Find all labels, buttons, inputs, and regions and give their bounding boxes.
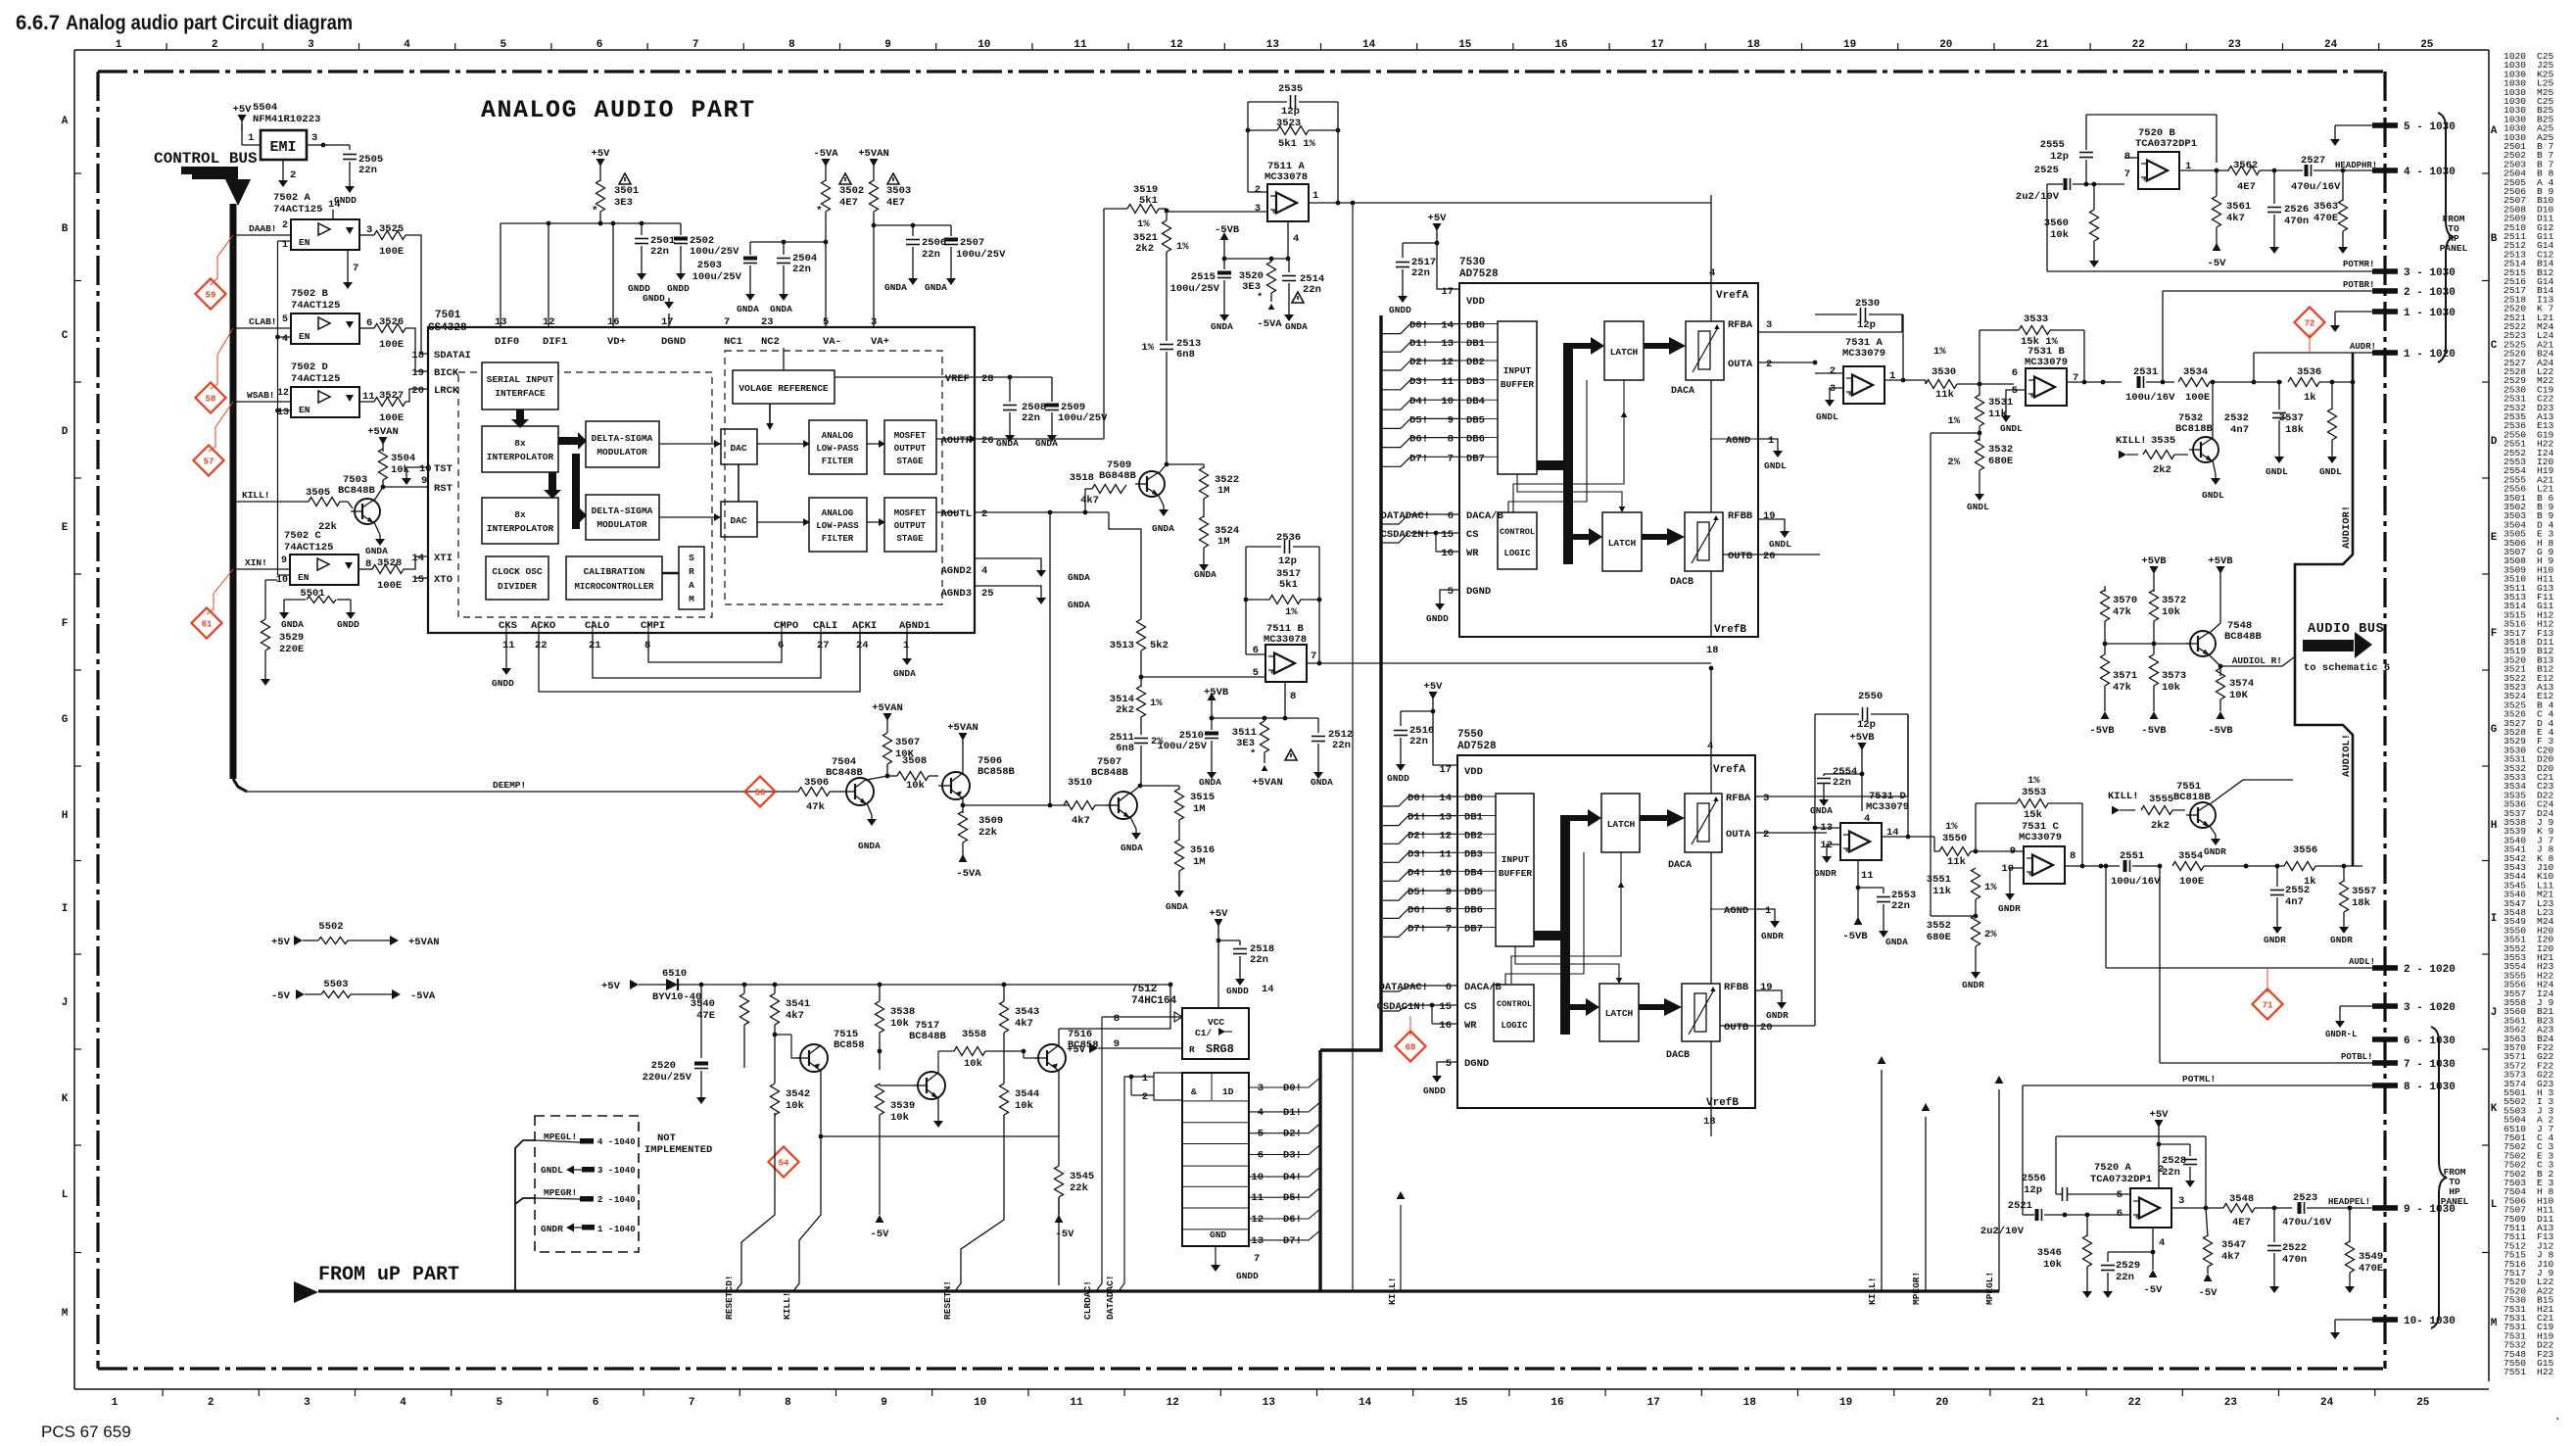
svg-text:BC858: BC858 (1068, 1039, 1099, 1051)
bottom loop CKS ground (505, 633, 507, 664)
svg-text:25: 25 (981, 588, 994, 600)
svg-text:24: 24 (2324, 39, 2338, 51)
svg-text:+5V: +5V (2150, 1109, 2170, 1121)
svg-text:8: 8 (785, 1397, 791, 1409)
block volage reference (733, 370, 835, 404)
svg-text:7502 C: 7502 C (284, 530, 322, 542)
capacitor 2554 (1824, 773, 1862, 775)
svg-text:LOGIC: LOGIC (1503, 549, 1531, 558)
net tag diamond 56 (744, 776, 775, 806)
svg-text:GNDD: GNDD (337, 619, 359, 630)
svg-text:17: 17 (661, 316, 674, 328)
svg-text:19: 19 (1839, 1397, 1852, 1409)
svg-text:DB3: DB3 (1466, 376, 1485, 388)
svg-text:BC848B: BC848B (338, 485, 376, 497)
svg-text:SERIAL INPUT: SERIAL INPUT (487, 374, 554, 385)
svg-text:7: 7 (2124, 169, 2130, 180)
svg-text:11: 11 (1073, 39, 1087, 51)
svg-text:GNDD: GNDD (492, 678, 514, 689)
7550 control logic wires (1505, 852, 1584, 985)
block serial input interface (482, 362, 558, 410)
stub 10-1030 (2372, 1317, 2398, 1323)
svg-text:GNDD: GNDD (1387, 773, 1409, 784)
svg-text:3515: 3515 (1190, 792, 1215, 803)
svg-text:RFBB: RFBB (1728, 510, 1753, 522)
svg-text:3525: 3525 (379, 223, 404, 235)
warning triangle near 3520 (1292, 292, 1304, 303)
svg-text:GNDL: GNDL (1764, 460, 1787, 471)
svg-text:7550: 7550 (1457, 729, 1483, 741)
svg-text:+: + (1848, 391, 1853, 400)
svg-text:3552: 3552 (1927, 920, 1951, 932)
svg-text:3: 3 (1258, 1083, 1264, 1094)
svg-text:EMI: EMI (269, 139, 296, 156)
svg-text:4: 4 (404, 39, 410, 51)
svg-text:22k: 22k (1070, 1182, 1088, 1194)
svg-text:MC33079: MC33079 (1866, 801, 1909, 813)
ground under 7504 (867, 803, 872, 815)
svg-text:9: 9 (1448, 414, 1454, 426)
7520B output to 3562 (2179, 169, 2229, 171)
svg-text:4: 4 (282, 334, 288, 345)
svg-text:+: + (1272, 209, 1277, 217)
svg-text:GNDD: GNDD (1423, 1085, 1446, 1096)
stub 8-1030 POTML (2372, 1083, 2398, 1088)
svg-text:GNDR: GNDR (2264, 935, 2286, 945)
block clock osc divider (486, 556, 549, 600)
svg-text:2: 2 (1763, 829, 1769, 841)
svg-text:2k2: 2k2 (2153, 464, 2171, 476)
svg-text:3539: 3539 (890, 1100, 915, 1112)
SRG8 data block (1182, 1073, 1249, 1246)
riser MPEGL! right (1998, 1089, 2000, 1291)
transistor 7548 (2190, 631, 2216, 656)
svg-text:12p: 12p (1281, 106, 1300, 118)
ground GNDD under 2505 (349, 181, 351, 186)
svg-text:I: I (62, 903, 69, 915)
svg-text:14: 14 (328, 199, 341, 211)
svg-text:LATCH: LATCH (1607, 819, 1636, 830)
IC 7550 outline (1457, 755, 1755, 1108)
svg-text:72: 72 (2305, 319, 2315, 329)
feedback loop wires 7511A (1247, 102, 1249, 192)
svg-text:8: 8 (1290, 691, 1296, 702)
svg-text:AUDL!: AUDL! (2349, 957, 2375, 967)
svg-text:VDD: VDD (1466, 296, 1485, 308)
svg-text:6: 6 (366, 317, 372, 329)
svg-text:GNDA: GNDA (1810, 805, 1833, 816)
svg-text:1 - 1030: 1 - 1030 (2404, 308, 2456, 319)
VA- node to caps 2503 2504 (824, 240, 829, 245)
resistor 3541 (774, 985, 776, 993)
svg-text:GNDR: GNDR (1766, 1010, 1789, 1021)
svg-text:4k7: 4k7 (786, 1010, 804, 1022)
svg-text:3505: 3505 (306, 487, 330, 499)
svg-text:GNDA: GNDA (1285, 321, 1308, 332)
EMI pin2 ground arrow (282, 160, 284, 174)
svg-text:56: 56 (755, 789, 766, 798)
svg-text:MC33079: MC33079 (2025, 357, 2068, 368)
-5VB below 7531D (1854, 917, 1863, 925)
net tag diamond 68 (1395, 1031, 1425, 1061)
svg-text:74ACT125: 74ACT125 (273, 204, 322, 216)
svg-text:GNDL: GNDL (1816, 411, 1838, 422)
svg-text:DB3: DB3 (1464, 848, 1483, 860)
volage reference to VREF pin wire (835, 376, 1052, 378)
svg-text:GNDL: GNDL (1967, 502, 1989, 512)
7530 thick data bus (1537, 460, 1568, 470)
svg-text:3533: 3533 (2024, 313, 2048, 325)
svg-text:19: 19 (1763, 510, 1776, 522)
svg-text:GNDA: GNDA (1121, 843, 1143, 853)
svg-text:5k1: 5k1 (1139, 195, 1158, 207)
svg-text:3: 3 (2178, 1195, 2184, 1207)
svg-text:3527: 3527 (379, 390, 404, 402)
op-amp 7531 B (2026, 368, 2067, 406)
svg-text:CS: CS (1466, 529, 1479, 541)
block mosfet output stage upper (884, 420, 936, 474)
svg-text:3557: 3557 (2352, 886, 2376, 897)
svg-text:DACA: DACA (1668, 860, 1692, 871)
block delta-sigma modulator upper (586, 421, 659, 467)
svg-text:24: 24 (856, 640, 869, 651)
svg-text:100E: 100E (2185, 392, 2210, 404)
svg-text:1%: 1% (1947, 415, 1960, 427)
svg-text:6.6.7: 6.6.7 (16, 12, 60, 34)
svg-text:RFBA: RFBA (1728, 319, 1753, 331)
svg-text:2k2: 2k2 (2151, 820, 2170, 832)
svg-text:-5V: -5V (2208, 258, 2227, 269)
long vertical net at x1381 (1352, 203, 1354, 1291)
svg-text:17: 17 (1441, 286, 1454, 298)
wire volage reference to DAC (769, 404, 771, 429)
svg-text:2532: 2532 (2224, 412, 2249, 424)
svg-text:25: 25 (2416, 1397, 2430, 1409)
SRG8 pin14 wire (1217, 965, 1219, 1008)
svg-text:KILL!: KILL! (782, 1291, 792, 1320)
svg-text:+5V: +5V (271, 937, 291, 948)
POTBR wire (2163, 290, 2388, 292)
svg-text:M: M (2491, 1318, 2498, 1329)
svg-text:POTBL!: POTBL! (2341, 1052, 2372, 1062)
wire 3554 to 3556 (2277, 865, 2284, 867)
VA+ node to caps 2506 2507 (872, 223, 877, 228)
svg-text:100E: 100E (379, 339, 404, 351)
svg-text:8 - 1030: 8 - 1030 (2404, 1082, 2456, 1093)
svg-text:7501: 7501 (435, 310, 461, 321)
CS4328 inner dashed analog box (725, 351, 942, 604)
svg-text:16: 16 (1441, 548, 1454, 559)
svg-text:3561: 3561 (2226, 201, 2251, 213)
7531D output node (1882, 836, 1934, 838)
svg-text:5: 5 (1446, 1058, 1452, 1070)
svg-text:2: 2 (2158, 1164, 2164, 1176)
svg-text:Analog audio part Circuit diag: Analog audio part Circuit diagram (66, 12, 353, 34)
svg-text:-5VB: -5VB (1842, 931, 1868, 942)
svg-text:3530: 3530 (1932, 366, 1956, 378)
transistor 7516 pnp (1038, 1044, 1066, 1072)
svg-text:5: 5 (500, 39, 506, 51)
svg-text:5 - 1030: 5 - 1030 (2404, 121, 2456, 133)
svg-text:MPEGR!: MPEGR! (544, 1187, 577, 1198)
svg-text:4 -: 4 - (597, 1137, 613, 1147)
block calibration microcontroller (566, 556, 662, 600)
svg-text:11: 11 (1070, 1397, 1083, 1409)
svg-text:2515: 2515 (1191, 271, 1216, 283)
svg-text:10k: 10k (2162, 606, 2180, 618)
svg-text:OUTA: OUTA (1728, 359, 1753, 370)
svg-text:7512: 7512 (1131, 984, 1157, 995)
svg-text:D7!: D7! (1407, 923, 1426, 935)
7531A output node (1884, 379, 1926, 381)
svg-text:VrefA: VrefA (1713, 764, 1745, 776)
svg-text:470u/16V: 470u/16V (2282, 1217, 2332, 1229)
svg-text:+: + (2030, 393, 2035, 402)
svg-text:-5VA: -5VA (1257, 318, 1282, 330)
svg-text:17: 17 (1651, 39, 1664, 51)
capacitor 2501 (635, 238, 648, 240)
svg-text:D4!: D4! (1407, 867, 1426, 879)
svg-text:10: 10 (974, 1397, 986, 1409)
svg-text:INTERPOLATOR: INTERPOLATOR (487, 452, 554, 462)
capacitor 2522 (2273, 1208, 2275, 1242)
svg-text:4: 4 (1709, 267, 1715, 279)
svg-text:5: 5 (823, 316, 829, 328)
svg-text:GNDD: GNDD (643, 293, 665, 304)
svg-text:4E7: 4E7 (839, 197, 858, 209)
svg-text:4k7: 4k7 (1015, 1018, 1033, 1030)
transistor 7551 (2190, 802, 2216, 828)
svg-text:AGND: AGND (1726, 435, 1750, 447)
ruler ticks bottom (162, 1389, 164, 1396)
svg-text:DB2: DB2 (1466, 357, 1485, 368)
svg-text:22n: 22n (1891, 900, 1910, 912)
svg-text:3: 3 (1763, 793, 1769, 804)
resistors 3515 3516 (1140, 785, 1179, 787)
svg-text:FROM uP PART: FROM uP PART (318, 1264, 459, 1286)
block analog low-pass filter upper (809, 420, 867, 474)
svg-text:19: 19 (1760, 982, 1773, 993)
svg-text:OUTPUT: OUTPUT (894, 521, 927, 531)
svg-text:EN: EN (299, 237, 310, 248)
svg-text:CLAB!: CLAB! (249, 316, 277, 327)
svg-text:13: 13 (1263, 1397, 1276, 1409)
svg-text:6: 6 (593, 1397, 599, 1409)
svg-text:S: S (689, 553, 694, 563)
minus5V label under 3545 (1058, 1197, 1060, 1215)
svg-text:3572: 3572 (2162, 595, 2186, 606)
svg-text:3 -: 3 - (597, 1166, 613, 1176)
svg-text:22k: 22k (318, 521, 337, 533)
svg-text:680E: 680E (1927, 932, 1951, 943)
svg-text:2k2: 2k2 (1116, 704, 1134, 716)
svg-text:2506: 2506 (922, 237, 946, 249)
svg-text:GNDA: GNDA (1199, 777, 1221, 788)
svg-text:GNDD: GNDD (1236, 1271, 1259, 1281)
svg-text:4E7: 4E7 (886, 197, 905, 209)
svg-text:14: 14 (1362, 39, 1376, 51)
svg-text:10k: 10k (890, 1112, 909, 1124)
stub 6-1030 (2372, 1036, 2398, 1042)
svg-text:ANALOG: ANALOG (822, 431, 853, 441)
svg-text:11: 11 (362, 391, 375, 403)
svg-text:470u/16V: 470u/16V (2291, 181, 2341, 193)
control bus thick arrow (181, 167, 238, 179)
svg-text:MC33079: MC33079 (1842, 348, 1885, 360)
svg-text:GND: GND (1210, 1229, 1226, 1240)
gate A ground pin7 (347, 250, 349, 277)
audio bus thick path (2295, 353, 2353, 866)
svg-text:DB1: DB1 (1464, 812, 1483, 824)
svg-text:5: 5 (1448, 586, 1454, 598)
svg-text:LATCH: LATCH (1605, 1008, 1634, 1019)
svg-text:E: E (2491, 532, 2498, 544)
svg-text:*: * (1257, 292, 1263, 304)
7530 data bus vertical thick (1379, 315, 1382, 1050)
svg-text:1%: 1% (1285, 606, 1298, 618)
svg-text:2%: 2% (1984, 929, 1997, 940)
svg-text:RESETCD!: RESETCD! (724, 1275, 735, 1320)
svg-text:11: 11 (1251, 1192, 1264, 1204)
svg-text:GNDR: GNDR (1998, 903, 2021, 914)
svg-text:7: 7 (1448, 453, 1454, 464)
svg-text:6: 6 (1448, 510, 1454, 522)
dash-dot schematic frame (98, 70, 2385, 72)
svg-text:54: 54 (779, 1159, 789, 1169)
svg-text:INTERPOLATOR: INTERPOLATOR (487, 523, 554, 534)
op-amp 7511 B (1265, 645, 1307, 682)
svg-text:MODULATOR: MODULATOR (596, 519, 647, 530)
svg-text:4k7: 4k7 (2226, 213, 2245, 224)
svg-text:5: 5 (496, 1397, 502, 1409)
svg-text:.: . (2554, 1412, 2561, 1423)
svg-text:20: 20 (1763, 551, 1776, 562)
wire XIN! input (233, 568, 290, 570)
svg-text:GNDA: GNDA (1211, 321, 1233, 332)
resistors 3522 3524 (1167, 463, 1204, 465)
svg-text:CLOCK OSC: CLOCK OSC (492, 566, 543, 577)
svg-text:3 - 1030: 3 - 1030 (2404, 267, 2456, 279)
svg-text:E: E (62, 522, 69, 534)
capacitor 2553 (1858, 887, 1884, 889)
svg-text:+5V: +5V (1428, 213, 1448, 224)
svg-text:22n: 22n (2162, 1167, 2180, 1179)
svg-text:3537: 3537 (2279, 412, 2304, 424)
svg-text:680E: 680E (1988, 456, 2013, 467)
svg-text:1 -: 1 - (597, 1225, 613, 1234)
svg-text:470E: 470E (2359, 1263, 2383, 1275)
ground under 7507 (1130, 817, 1136, 829)
svg-text:AGND2: AGND2 (940, 565, 972, 577)
op-amp 7531 A (1843, 366, 1884, 404)
svg-text:74ACT125: 74ACT125 (284, 542, 333, 554)
svg-text:GNDA: GNDA (1068, 572, 1090, 583)
svg-text:1: 1 (903, 640, 909, 651)
svg-text:GNDD: GNDD (1426, 613, 1449, 624)
svg-text:DB5: DB5 (1464, 887, 1483, 898)
svg-text:21: 21 (2035, 39, 2049, 51)
svg-text:DB1: DB1 (1466, 338, 1485, 350)
svg-text:H: H (62, 810, 69, 822)
svg-text:1%: 1% (1933, 346, 1946, 358)
svg-text:3529: 3529 (279, 632, 304, 644)
svg-text:CS: CS (1464, 1001, 1477, 1013)
svg-text:100u/25V: 100u/25V (1170, 283, 1220, 295)
svg-text:2: 2 (1142, 1091, 1148, 1103)
wire 7507 collector up to 2511 node (1130, 786, 1140, 794)
svg-text:J: J (62, 997, 69, 1009)
svg-text:2535: 2535 (1278, 83, 1303, 95)
svg-text:LOW-PASS: LOW-PASS (816, 444, 859, 454)
svg-text:D: D (2491, 436, 2498, 448)
svg-text:3: 3 (304, 1397, 310, 1409)
svg-text:*: * (592, 206, 598, 217)
svg-text:4: 4 (1293, 233, 1299, 245)
svg-text:1: 1 (282, 240, 288, 251)
svg-text:15: 15 (1439, 1001, 1452, 1013)
svg-text:23: 23 (761, 316, 774, 328)
svg-text:ANALOG: ANALOG (822, 508, 853, 518)
svg-text:DELTA-SIGMA: DELTA-SIGMA (592, 433, 653, 444)
svg-text:2k2: 2k2 (1135, 243, 1154, 255)
wire WSAB! input (233, 401, 291, 403)
svg-text:KILL!: KILL! (242, 490, 270, 501)
net tag diamond 71 (2252, 988, 2282, 1019)
svg-text:BG848B: BG848B (1099, 470, 1137, 482)
wire 3510 node up to AOUTL net (1049, 512, 1051, 805)
svg-text:BC848B: BC848B (1091, 767, 1129, 779)
svg-text:AOUTL: AOUTL (940, 508, 972, 520)
svg-text:3554: 3554 (2178, 850, 2203, 862)
svg-text:23: 23 (2228, 39, 2242, 51)
svg-text:B: B (62, 223, 69, 235)
svg-text:4: 4 (400, 1397, 406, 1409)
svg-text:100u/16V: 100u/16V (2125, 392, 2175, 404)
wire 7504 collector to 3508 (867, 776, 887, 780)
svg-text:3501: 3501 (614, 185, 639, 197)
svg-text:-5V: -5V (2199, 1287, 2218, 1299)
svg-text:L: L (2491, 1199, 2498, 1211)
svg-text:D3!: D3! (1407, 848, 1426, 860)
svg-text:A: A (689, 580, 694, 591)
svg-text:7: 7 (724, 316, 730, 328)
buffer 7502 D (291, 387, 359, 417)
svg-text:3549: 3549 (2359, 1251, 2383, 1263)
svg-text:2 - 1020: 2 - 1020 (2404, 964, 2456, 976)
svg-text:2: 2 (1255, 184, 1261, 196)
resistor 3520 (1267, 262, 1276, 293)
resistor 3542 (771, 1084, 780, 1115)
svg-text:DB7: DB7 (1464, 923, 1483, 935)
wire DAC chain (738, 464, 739, 502)
svg-text:22n: 22n (1303, 284, 1321, 296)
svg-text:C: C (62, 330, 69, 342)
svg-text:INTERFACE: INTERFACE (495, 388, 546, 399)
7550 latch B (1599, 984, 1639, 1041)
svg-text:CALO: CALO (585, 620, 609, 632)
resistor 3543 (1003, 985, 1005, 1001)
svg-text:3528: 3528 (377, 557, 402, 569)
capacitor 2518 (1218, 940, 1240, 941)
svg-text:-5VB: -5VB (2208, 725, 2233, 737)
svg-text:3503: 3503 (886, 185, 911, 197)
svg-text:100u/25V: 100u/25V (690, 246, 739, 258)
transistor 7506 pnp (942, 772, 970, 799)
NOT IMPLEMENTED trunk (515, 1140, 535, 1291)
svg-text:DAAB!: DAAB! (249, 223, 277, 234)
svg-text:EN: EN (299, 331, 310, 342)
svg-text:22n: 22n (1411, 267, 1430, 279)
